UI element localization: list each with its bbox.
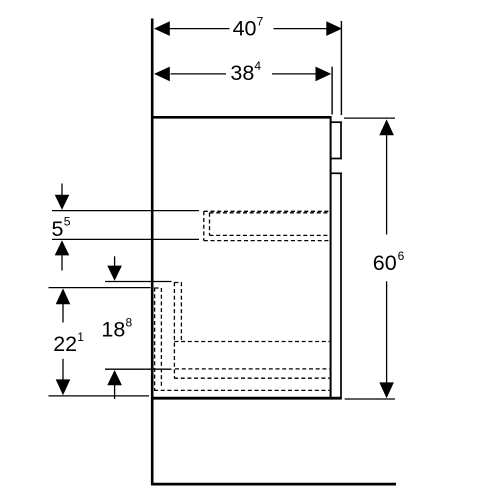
lower front tab (drawer front) <box>331 173 342 399</box>
top drawer dashed outer box <box>204 211 330 240</box>
svg-text:8: 8 <box>126 316 133 330</box>
upper front tab (worktop edge) <box>331 121 342 159</box>
dimension 40.7 left arrow <box>154 21 170 36</box>
lower drawer dashed front panel <box>155 288 162 391</box>
dimension 18.8 upper arrow (pointing down) <box>114 256 116 267</box>
lower drawer dashed recess walls <box>174 282 181 378</box>
dimension 60.6 vertical line <box>386 133 388 384</box>
dimension 40.7 right arrow <box>326 21 342 36</box>
dimension 22.1 top extension line <box>49 287 151 289</box>
dimension 5.5 top extension line <box>52 210 199 212</box>
dimension 60.6 bottom extension line <box>345 398 395 400</box>
floor line <box>151 483 396 486</box>
dimension 5.5 bottom extension line <box>52 238 199 240</box>
dimension 22.1 down arrow <box>62 359 64 381</box>
dimension 38.4 right extension line <box>331 67 333 115</box>
svg-text:5: 5 <box>52 217 64 241</box>
dimension 38.4 right arrow <box>316 67 332 82</box>
dimension 38.4 line <box>171 73 317 75</box>
dimension 60.6 bottom arrow <box>379 382 394 398</box>
cabinet right side (box edge) <box>330 116 332 400</box>
svg-text:40: 40 <box>233 17 257 41</box>
dimension 22.1 up arrow <box>56 288 71 304</box>
dimension 5.5 lower arrow (pointing up) <box>55 240 70 255</box>
cabinet top edge <box>152 116 331 119</box>
svg-text:18: 18 <box>101 318 125 342</box>
dimension 60.6 top arrow <box>379 119 394 135</box>
svg-text:7: 7 <box>257 15 264 29</box>
dimension 18.8 lower arrow (pointing up) <box>107 370 122 385</box>
dimension 18.8 bottom extension line <box>105 368 172 370</box>
svg-text:4: 4 <box>254 59 261 73</box>
wall (left vertical line) <box>151 19 154 485</box>
svg-text:22: 22 <box>53 332 77 356</box>
dimension 60.6 top extension line <box>344 117 395 119</box>
svg-text:5: 5 <box>64 215 71 229</box>
cabinet bottom edge <box>152 397 342 400</box>
svg-text:38: 38 <box>230 61 254 85</box>
dimension 22.1 bottom extension line <box>49 395 150 397</box>
dimension 5.5 upper arrow (pointing down) <box>61 184 63 197</box>
lower drawer dashed shelf/bottom lines <box>154 342 330 391</box>
dimension 40.7 right extension line <box>340 21 342 115</box>
dimension 40.7 line <box>170 28 328 30</box>
dimension 18.8 top extension line <box>105 281 172 283</box>
svg-text:1: 1 <box>77 330 84 344</box>
top drawer dashed inner box <box>210 213 330 236</box>
svg-text:6: 6 <box>398 249 405 263</box>
svg-text:60: 60 <box>373 251 397 275</box>
dimension 38.4 left arrow <box>154 67 170 82</box>
